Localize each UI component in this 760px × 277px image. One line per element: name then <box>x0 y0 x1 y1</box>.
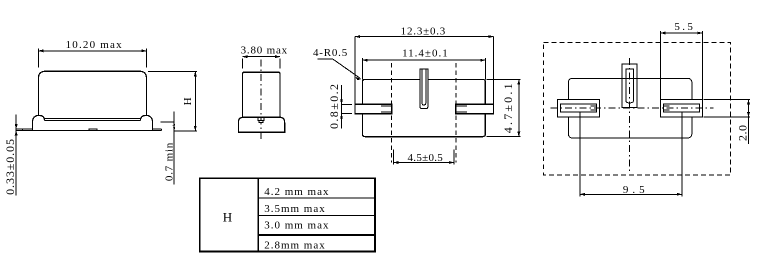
dim 4.5 dimension line <box>393 162 454 164</box>
dim 0.33 line <box>15 114 17 195</box>
front view: lower seam line <box>45 119 141 121</box>
svg-text:12.3±0.3: 12.3±0.3 <box>401 25 446 37</box>
label 4-R0.5 leader arrow <box>355 77 361 80</box>
land pattern: left pad lead detail <box>591 106 597 110</box>
bottom view: vent slot outer <box>420 69 428 109</box>
dim 10.20 max arrows <box>38 49 146 52</box>
svg-text:4.7±0.1: 4.7±0.1 <box>501 81 515 133</box>
land pattern: right pad inner lead <box>663 104 699 112</box>
bottom view: body outline <box>363 79 486 136</box>
land pattern: left pad <box>557 99 599 117</box>
land pattern: dashed boundary box <box>544 43 731 175</box>
dim 12.3 arrows <box>355 35 494 38</box>
dim 9.5 extension lines <box>580 112 682 196</box>
svg-text:0.33±0.05: 0.33±0.05 <box>3 138 17 195</box>
dim 10.20 max dimension line <box>38 50 146 52</box>
land pattern: slot pad outer <box>622 64 637 108</box>
land pattern: right pad <box>660 99 702 117</box>
table: outer border <box>200 178 375 251</box>
dim 4.5 arrows <box>393 161 454 164</box>
svg-text:H: H <box>182 97 194 106</box>
dim 11.4 extension lines <box>363 58 486 79</box>
svg-text:2.8mm max: 2.8mm max <box>264 240 326 252</box>
svg-text:2.0: 2.0 <box>735 125 749 142</box>
land pattern: slot inner <box>626 69 634 103</box>
land pattern: vertical center line <box>629 58 631 174</box>
svg-text:5.5: 5.5 <box>674 21 695 33</box>
dim 12.3 extension lines <box>355 37 494 105</box>
front view: right lead <box>153 129 162 130</box>
dim 3.80 max extension lines <box>242 59 280 69</box>
land pattern: right pad lead detail <box>663 106 669 110</box>
svg-text:0.8±0.2: 0.8±0.2 <box>327 83 341 129</box>
svg-text:3.80 max: 3.80 max <box>241 45 288 57</box>
svg-text:4.2 mm max: 4.2 mm max <box>264 186 329 198</box>
dim 4.7 dimension line <box>518 80 520 137</box>
dim 0.7 min tick <box>161 121 175 123</box>
bottom view: hidden line left <box>391 63 393 162</box>
dim 4.7 arrows <box>517 80 520 137</box>
land pattern: horizontal center line <box>551 107 714 109</box>
dim H arrows <box>194 71 197 131</box>
front view: base right edge <box>152 123 154 131</box>
svg-text:0.7 min: 0.7 min <box>164 142 176 181</box>
front view: seating line <box>23 129 162 131</box>
front view: base left edge <box>31 123 33 131</box>
dim 0.33 arrows <box>15 124 18 135</box>
dim H extension lines <box>148 71 197 131</box>
table: column divider <box>257 178 259 251</box>
dim 11.4 dimension line <box>363 59 486 61</box>
dim 12.3 dimension line <box>355 36 494 38</box>
dim 0.8 arrows <box>340 99 343 118</box>
front view: right crimp dome <box>140 115 152 122</box>
dim 2.0 arrows <box>747 99 750 117</box>
svg-text:4.5±0.5: 4.5±0.5 <box>407 152 443 164</box>
dim 5.5 arrows <box>661 32 703 35</box>
dim 0.33 extension ticks <box>16 129 23 130</box>
svg-text:10.20 max: 10.20 max <box>66 39 123 51</box>
land pattern: component body outline <box>568 78 692 138</box>
svg-text:11.4±0.1: 11.4±0.1 <box>402 47 449 59</box>
svg-text:3.0 mm max: 3.0 mm max <box>264 219 329 231</box>
front view: center bump on seating line <box>89 129 97 130</box>
table: row line 3 (thick) <box>258 234 375 236</box>
dim 11.4 arrows <box>363 59 486 62</box>
bottom view: left lead <box>355 104 392 113</box>
dim 0.8 extension ticks <box>342 104 353 113</box>
bottom view: left lead inner detail <box>381 106 392 112</box>
table: row line 1 <box>258 197 375 199</box>
side view: base <box>238 117 284 132</box>
dim 0.7 min line <box>173 111 175 184</box>
dim 4.5 extension stubs <box>393 150 454 165</box>
dim 9.5 arrows <box>580 193 682 196</box>
svg-text:3.5mm max: 3.5mm max <box>264 203 326 215</box>
front view: left crimp dome <box>32 115 44 122</box>
bottom view: right lead inner detail <box>456 106 467 112</box>
dim 5.5 extension lines <box>661 31 703 99</box>
bottom view: hidden line right <box>455 63 457 162</box>
front view: left lead <box>23 129 33 130</box>
front view: crystal can outline <box>38 71 146 115</box>
dim 3.80 max dimension line <box>242 56 280 58</box>
side view: center line <box>260 60 262 140</box>
dim 3.80 max arrows <box>242 55 280 58</box>
bottom view: right lead <box>456 104 494 113</box>
dim 2.0 dimension line <box>748 99 750 144</box>
svg-text:H: H <box>223 210 232 225</box>
svg-text:9.5: 9.5 <box>623 184 649 196</box>
dim 9.5 dimension line <box>580 193 682 195</box>
dim H dimension line <box>194 71 196 131</box>
dim 4.7 extension lines <box>487 80 521 137</box>
front view: upper seam line <box>45 118 141 120</box>
bottom view: vent slot inner <box>422 69 426 105</box>
side view: pin cross-section <box>258 117 264 120</box>
dim 0.7 min arrows <box>173 122 176 131</box>
svg-text:4-R0.5: 4-R0.5 <box>313 47 348 59</box>
dim 2.0 extension lines <box>704 99 751 117</box>
dim 5.5 dimension line <box>661 32 703 34</box>
side view: can <box>243 72 281 117</box>
dim 10.20 max extension lines <box>38 49 146 68</box>
table: row line 2 <box>258 214 375 216</box>
land pattern: left pad inner lead <box>560 104 596 112</box>
label 4-R0.5 leader <box>318 59 360 78</box>
dim 0.8 dimension line <box>341 85 343 129</box>
